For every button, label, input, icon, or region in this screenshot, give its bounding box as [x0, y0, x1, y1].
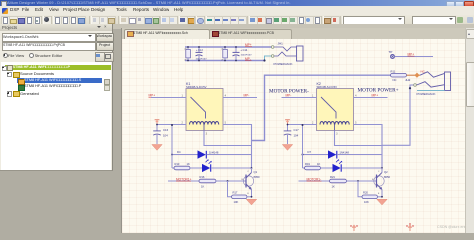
svg-text:R19: R19 — [305, 162, 310, 166]
svg-text:TP: TP — [389, 49, 393, 53]
svg-text:E: E — [247, 193, 249, 195]
net label MP+ — [149, 93, 156, 97]
svg-text:1K: 1K — [332, 184, 335, 188]
wire — [171, 125, 173, 168]
relay K1 — [182, 81, 227, 135]
LED D6 — [190, 159, 252, 172]
svg-text:10K: 10K — [234, 199, 239, 203]
projects panel — [0, 24, 113, 171]
project combo — [2, 42, 96, 52]
connector JH2 POWERJACK — [405, 71, 451, 95]
wire relay pin3 — [204, 130, 252, 145]
resistor R20 10K — [358, 181, 383, 204]
radio: file view — [3, 53, 8, 58]
power port VCC — [155, 119, 160, 124]
svg-text:+ C13: + C13 — [196, 49, 203, 52]
capacitor C16 104 — [153, 123, 168, 143]
svg-text:+ C14: + C14 — [241, 49, 248, 52]
wire relay pin1 — [151, 96, 186, 98]
resistor R17 10K — [228, 181, 253, 204]
resistor R19 1K — [303, 161, 321, 169]
connector JH1 POWERJACK — [263, 41, 303, 66]
resistor R21 1K — [330, 175, 377, 189]
net label MOTOR1+ — [168, 177, 199, 181]
svg-text:R16: R16 — [200, 175, 205, 179]
svg-text:100UF/16V: 100UF/16V — [241, 54, 253, 56]
resistor R16 1K — [199, 175, 246, 189]
wire relay pin1 — [282, 96, 317, 98]
net label MP+ — [245, 43, 252, 47]
net label MP- — [244, 93, 251, 97]
svg-text:POWERJACK: POWERJACK — [417, 91, 436, 95]
LED D8 — [321, 159, 383, 172]
svg-text:C16: C16 — [163, 128, 169, 132]
svg-text:R20: R20 — [363, 190, 368, 194]
svg-text:3: 3 — [336, 132, 338, 135]
resistor R13 1K — [172, 161, 190, 169]
svg-text:R11: R11 — [391, 69, 396, 73]
svg-text:R21: R21 — [330, 175, 335, 179]
power port +5V (bottom left) — [350, 224, 357, 230]
net label MP- — [286, 93, 293, 97]
wire relay pin4 — [354, 96, 388, 98]
svg-text:SRD4B-S-DC5V: SRD4B-S-DC5V — [186, 85, 207, 89]
menu bar — [0, 6, 474, 16]
svg-text:C: C — [247, 170, 249, 172]
svg-text:E: E — [378, 193, 380, 195]
svg-text:JH2: JH2 — [405, 77, 411, 81]
title text — [7, 1, 447, 6]
net label MP+ — [372, 93, 379, 97]
test point TP — [389, 49, 434, 58]
svg-text:D7: D7 — [308, 150, 312, 154]
component C11 (box) — [221, 46, 227, 61]
power port VCC — [285, 119, 290, 124]
net label MP- — [245, 56, 252, 60]
svg-text:1N4148: 1N4148 — [209, 150, 219, 154]
wire relay pin5 to collector rail — [223, 124, 252, 169]
svg-text:POWERJACK: POWERJACK — [274, 62, 293, 66]
capacitor C14 100UF/16V — [233, 46, 253, 61]
two small buttons — [95, 52, 105, 62]
wire long feed — [252, 75, 391, 140]
panel header — [0, 24, 112, 31]
main toolbar — [0, 15, 474, 28]
svg-text:1K: 1K — [187, 161, 190, 165]
svg-text:1K: 1K — [317, 161, 320, 165]
svg-text:JH1: JH1 — [278, 41, 284, 45]
wire — [302, 125, 304, 168]
wire relay pin2 — [157, 123, 186, 125]
svg-text:SRD4B-S-DC5V: SRD4B-S-DC5V — [317, 85, 338, 89]
power port +5V (bottom right) — [406, 223, 413, 231]
diode D7 1N4148 — [302, 150, 383, 159]
wire relay pin3 — [335, 130, 383, 145]
tree area — [1, 62, 111, 170]
document area: tab bar — [122, 28, 465, 39]
transistor Q1 8050 — [242, 168, 260, 197]
strip between toolbar and tabs — [112, 24, 474, 29]
csdn watermark — [437, 225, 471, 229]
svg-text:104: 104 — [294, 133, 299, 137]
capacitor C17 104 — [284, 123, 299, 143]
ground symbol — [282, 144, 292, 150]
svg-text:1N4148: 1N4148 — [340, 150, 350, 154]
svg-text:D4: D4 — [177, 150, 181, 154]
wire JH2 to K2 collector rail — [382, 85, 413, 145]
ground symbol — [377, 199, 387, 205]
canvas left edge line — [121, 28, 122, 233]
wire VCC top rail — [185, 46, 271, 48]
net label MOTOR1- — [299, 177, 330, 181]
relay K2 — [312, 81, 357, 135]
app icon — [1, 1, 7, 7]
title bar — [0, 0, 474, 6]
wire bottom rail — [185, 59, 265, 61]
window buttons — [446, 1, 456, 8]
ground symbol — [246, 199, 256, 205]
diode D4 1N4148 — [171, 150, 252, 159]
svg-text:NC: NC — [393, 78, 397, 82]
ground symbol — [152, 144, 162, 150]
svg-text:1K: 1K — [201, 184, 204, 188]
svg-text:C17: C17 — [294, 128, 300, 132]
transistor Q2 8050 — [372, 168, 390, 197]
svg-text:R17: R17 — [233, 190, 238, 194]
svg-text:8050: 8050 — [384, 174, 390, 178]
svg-text:100UF/16V: 100UF/16V — [196, 58, 208, 60]
component C9 (box) — [184, 46, 190, 61]
wire relay pin2 — [288, 123, 317, 125]
right scrollbar — [465, 28, 474, 233]
no-ERC marker — [407, 69, 426, 77]
capacitor C13 100UF/16V — [196, 46, 208, 61]
svg-text:8050: 8050 — [254, 174, 260, 178]
svg-text:C: C — [378, 170, 380, 172]
schematic canvas — [122, 39, 465, 234]
wire relay pin4 — [223, 96, 257, 98]
svg-text:MOTOR POWER+: MOTOR POWER+ — [358, 87, 399, 93]
project button — [96, 42, 114, 52]
DXP logo — [2, 8, 8, 14]
svg-text:Q1: Q1 — [254, 170, 258, 174]
svg-text:3: 3 — [206, 132, 208, 135]
radio: structure editor — [29, 53, 34, 58]
resistor R11 — [391, 69, 407, 82]
svg-text:R13: R13 — [175, 162, 180, 166]
svg-text:10K: 10K — [364, 199, 369, 203]
svg-text:Q2: Q2 — [384, 170, 388, 174]
wire relay pin5 to collector rail — [354, 124, 383, 169]
workspace combo — [2, 33, 96, 43]
workspace button — [96, 33, 114, 43]
svg-text:104: 104 — [163, 133, 168, 137]
